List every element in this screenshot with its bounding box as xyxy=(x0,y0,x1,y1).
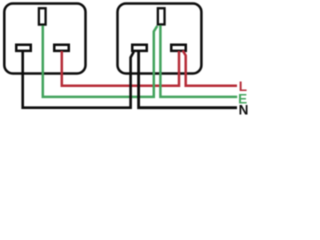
wire L red feed SK2 to label xyxy=(183,51,237,86)
wire L red loop SK1 to SK2 xyxy=(62,51,179,86)
terminal SK2 neutral (left slot) xyxy=(132,45,147,51)
terminal SK2 live (right slot) xyxy=(171,45,186,51)
terminal SK1 live (right slot) xyxy=(54,45,69,51)
socket faceplate SK2 xyxy=(118,4,202,74)
wire N black loop SK1 to SK2 xyxy=(23,51,134,108)
wire N black feed SK2 to label xyxy=(139,51,237,108)
terminal SK1 neutral (left slot) xyxy=(16,45,31,51)
earth slot SK2 xyxy=(158,8,165,24)
wire E green loop SK1 to SK2 xyxy=(43,26,158,97)
svg-text:N: N xyxy=(239,103,249,117)
earth slot SK1 xyxy=(39,8,46,24)
socket faceplate SK1 xyxy=(4,4,85,74)
wire E green feed SK2 to label xyxy=(160,25,237,97)
